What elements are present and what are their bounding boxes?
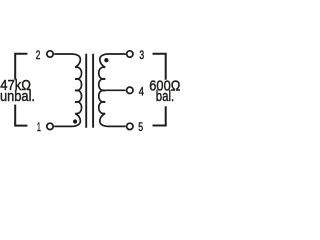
primary winding L1 with lead wires xyxy=(54,54,81,126)
svg-text:unbal.: unbal. xyxy=(0,88,35,105)
terminal 1 xyxy=(47,123,53,129)
svg-text:2: 2 xyxy=(36,48,41,62)
svg-text:1: 1 xyxy=(37,120,41,134)
transformer core line 2 xyxy=(92,54,94,128)
phase dot secondary xyxy=(104,58,108,62)
phase dot primary xyxy=(73,119,77,123)
transformer core line 1 xyxy=(85,54,87,128)
svg-text:5: 5 xyxy=(138,120,143,134)
center tap wire to terminal 4 xyxy=(105,89,125,91)
terminal 3 xyxy=(127,51,133,57)
terminal 4 xyxy=(127,87,133,93)
secondary winding L2 with lead wires xyxy=(99,54,126,126)
terminal 2 xyxy=(47,51,53,57)
terminal 5 xyxy=(127,123,133,129)
svg-text:bal.: bal. xyxy=(156,88,174,105)
left impedance bracket xyxy=(15,54,27,126)
right impedance bracket xyxy=(153,54,166,126)
svg-text:4: 4 xyxy=(139,84,144,98)
svg-text:3: 3 xyxy=(139,48,144,62)
